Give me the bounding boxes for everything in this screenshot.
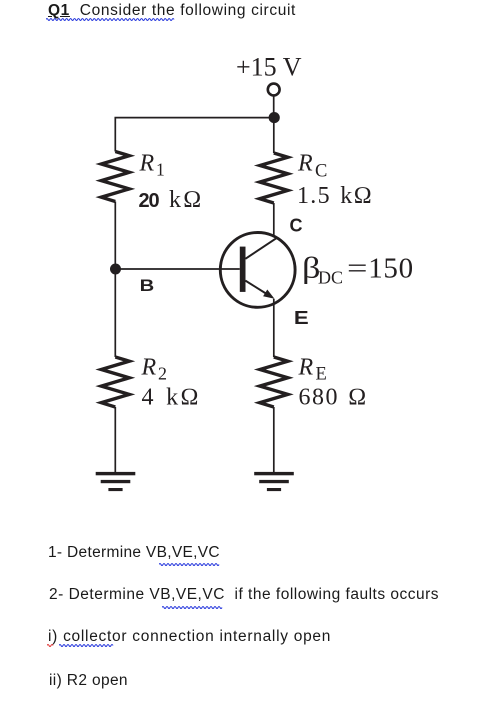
value label 20 kOhm: [139, 187, 204, 213]
resistor R2: [101, 357, 129, 407]
svg-text:R: R: [141, 355, 157, 381]
resistor RC: [260, 153, 288, 203]
svg-text:+15 V: +15 V: [236, 53, 302, 82]
title Q1 Consider the following circuit: [48, 2, 296, 20]
squiggle under collector (blue): [59, 642, 115, 647]
svg-text:B: B: [140, 276, 155, 295]
wire terminal to top junction: [273, 96, 275, 118]
question line i: [48, 628, 331, 646]
junction dot node B: [110, 264, 121, 275]
svg-text:4 kΩ: 4 kΩ: [142, 385, 201, 411]
svg-text:1: 1: [156, 160, 165, 180]
svg-text:R: R: [139, 151, 155, 177]
question line 2: [49, 586, 439, 604]
svg-text:C: C: [290, 216, 303, 236]
transistor base bar: [240, 247, 246, 292]
ground left: [96, 472, 136, 491]
question line ii: [49, 672, 128, 690]
wire RE to ground: [273, 407, 275, 473]
svg-text:DC: DC: [318, 268, 343, 288]
wire top rail: [115, 118, 273, 152]
svg-text:E: E: [316, 365, 327, 385]
svg-text:kΩ: kΩ: [169, 187, 203, 213]
wire R1 to R2 through node B: [114, 202, 116, 358]
squiggle under Q1 Consider (blue): [46, 16, 176, 21]
supply terminal circle: [268, 84, 280, 96]
transistor collector lead: [245, 238, 276, 258]
label R1: [139, 151, 165, 180]
svg-text:2: 2: [158, 364, 167, 384]
junction dot top: [269, 112, 280, 123]
svg-text:E: E: [294, 308, 309, 328]
ground right: [254, 472, 294, 491]
emitter arrowhead: [263, 290, 274, 299]
label RC: [297, 151, 327, 182]
svg-text:20: 20: [139, 190, 160, 212]
squiggle line2 (blue): [162, 604, 224, 609]
label beta DC = 150: [302, 252, 414, 288]
svg-text:1.5 kΩ: 1.5 kΩ: [297, 183, 373, 209]
wire emitter to RE: [273, 299, 275, 357]
wire R2 to ground: [114, 407, 116, 473]
wire rail to RC: [273, 118, 275, 153]
label RE: [298, 355, 327, 385]
wire base: node B to base bar: [116, 268, 240, 270]
squiggle line1 (blue): [159, 561, 221, 566]
svg-text:=: =: [347, 253, 368, 285]
transistor emitter lead: [245, 281, 268, 296]
svg-text:150: 150: [368, 253, 414, 285]
question line 1: [48, 544, 220, 562]
resistor R1: [101, 152, 129, 202]
svg-text:680 Ω: 680 Ω: [299, 385, 368, 411]
wire RC to collector: [273, 203, 275, 241]
squiggle under i (red): [47, 642, 55, 647]
resistor RE: [260, 357, 288, 407]
svg-text:C: C: [315, 162, 327, 182]
transistor Q1 circle: [220, 233, 295, 308]
svg-text:R: R: [297, 151, 313, 177]
svg-text:R: R: [298, 355, 314, 381]
label R2: [141, 355, 168, 384]
